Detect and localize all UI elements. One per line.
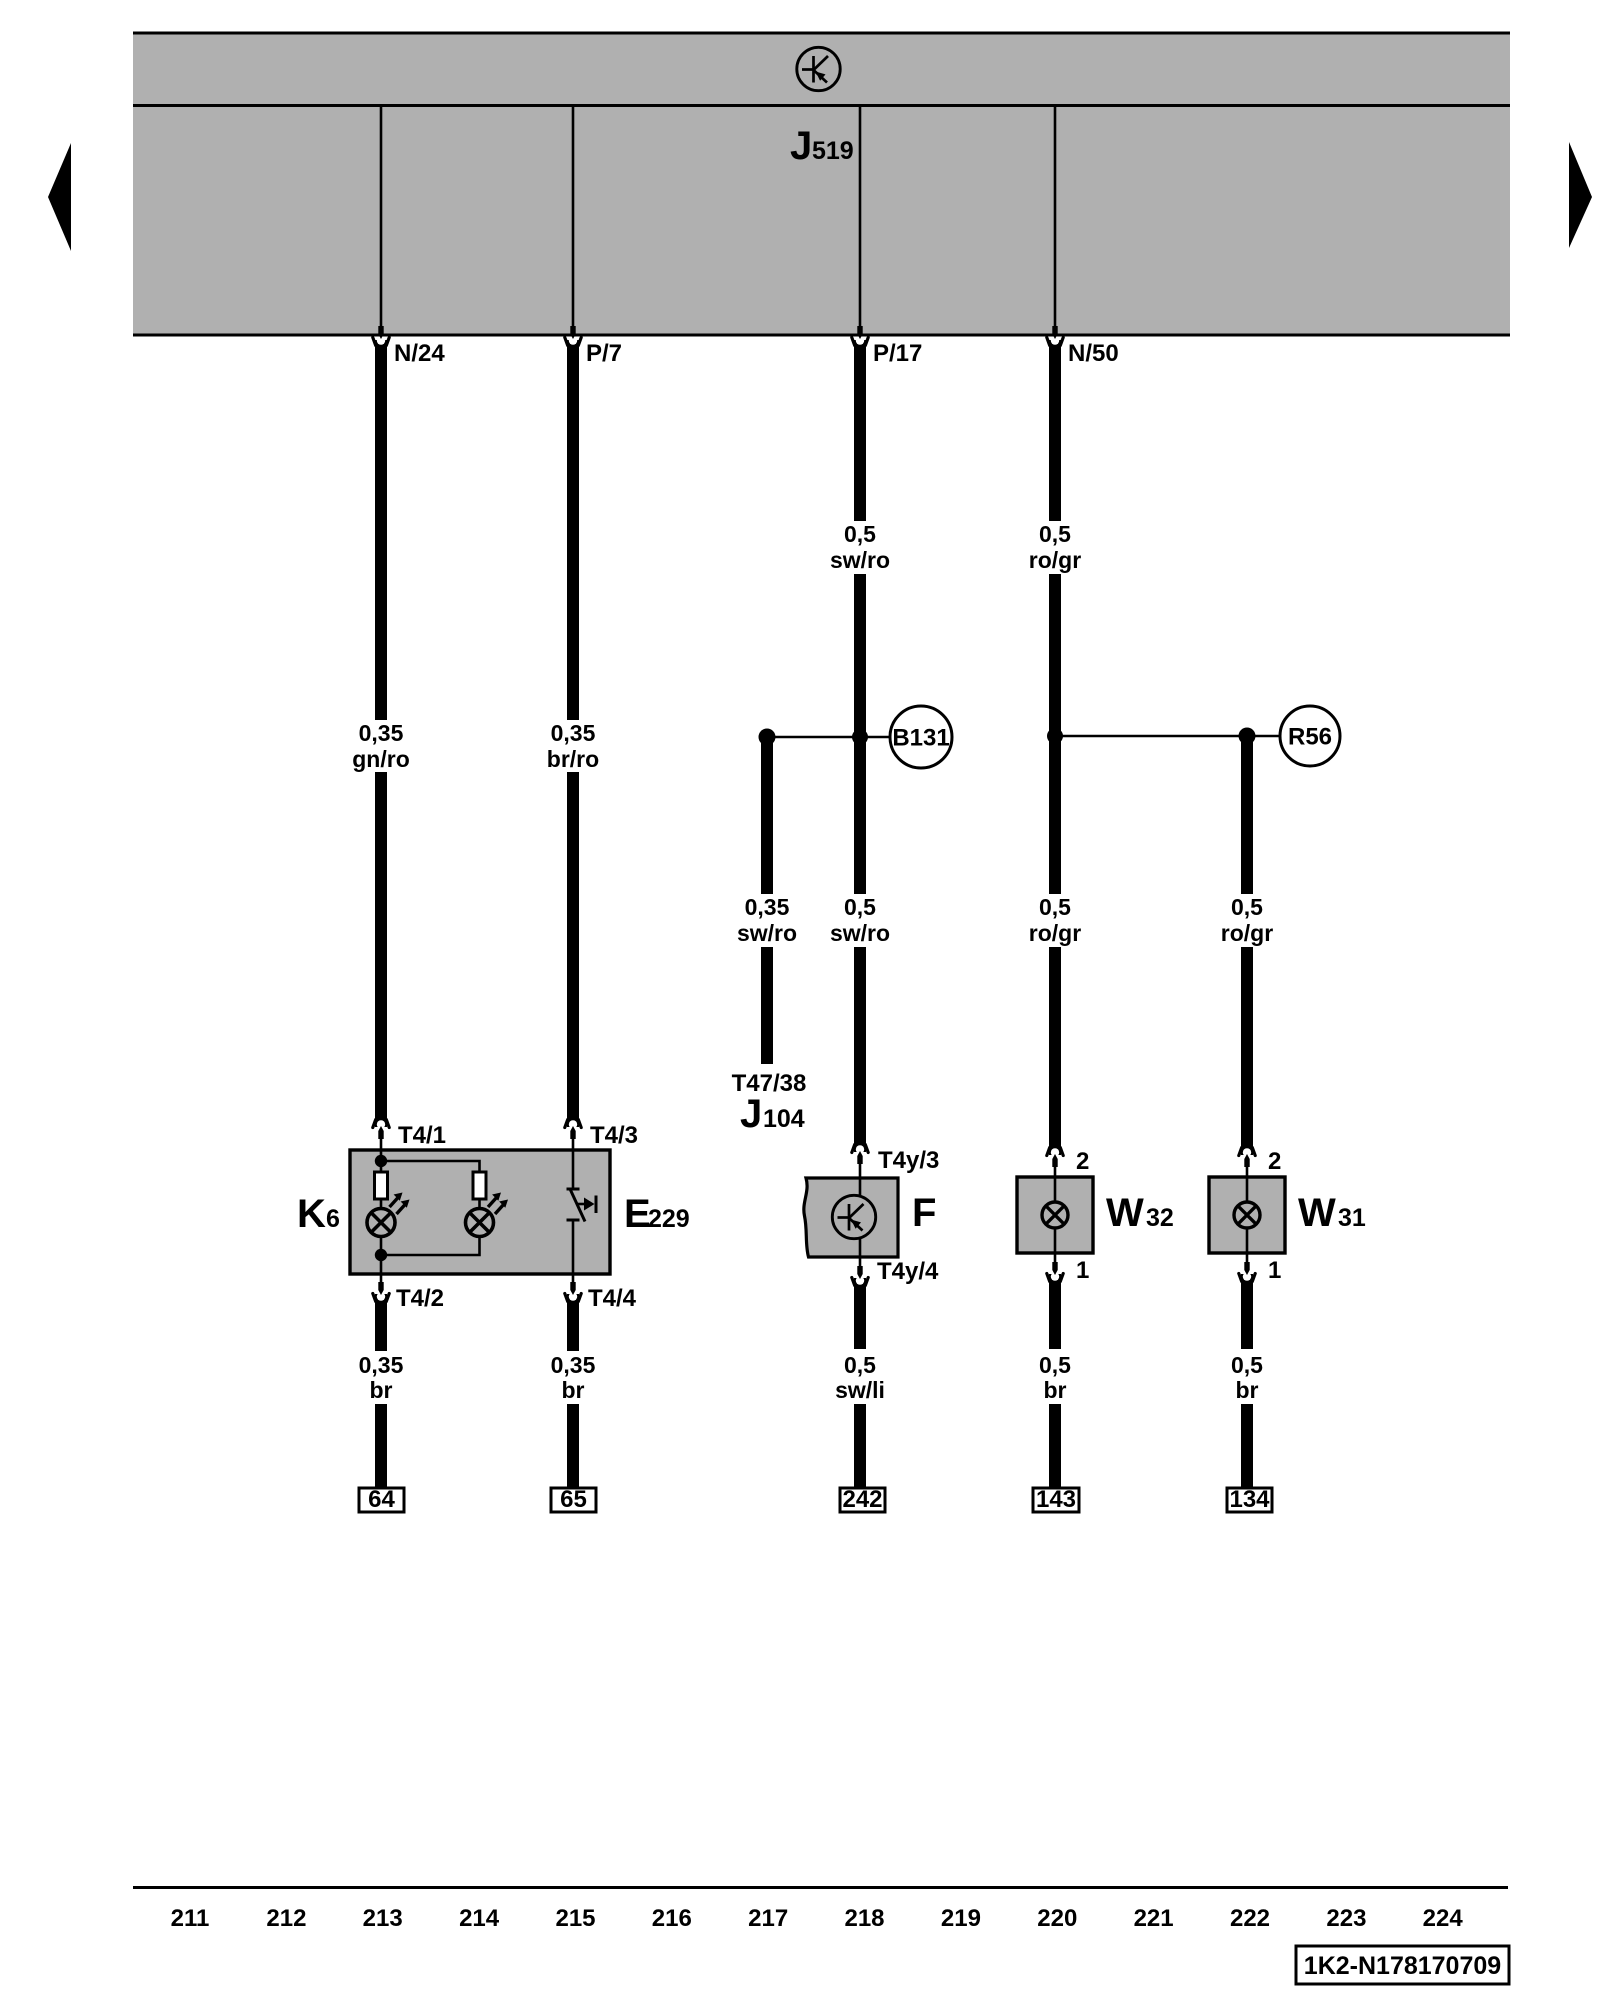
svg-text:217: 217 <box>748 1905 788 1932</box>
svg-text:br: br <box>562 1377 585 1403</box>
svg-text:64: 64 <box>368 1486 395 1513</box>
lamp symbol W31 <box>1234 1202 1260 1228</box>
wire W32 to ground 143, lower segment <box>1049 1404 1061 1489</box>
svg-text:143: 143 <box>1036 1486 1076 1513</box>
svg-text:229: 229 <box>648 1205 690 1233</box>
svg-text:220: 220 <box>1037 1905 1077 1932</box>
svg-text:134: 134 <box>1229 1486 1270 1513</box>
connector W32 pin 2 <box>1047 1148 1090 1180</box>
internal wire of J519 to pin P/17 <box>857 107 862 339</box>
label W32 <box>1106 1191 1174 1235</box>
svg-text:sw/ro: sw/ro <box>830 920 890 946</box>
svg-text:242: 242 <box>842 1486 882 1513</box>
svg-text:T4/4: T4/4 <box>588 1285 637 1312</box>
svg-text:0,5: 0,5 <box>1231 894 1263 920</box>
svg-text:0,35: 0,35 <box>745 894 790 920</box>
svg-text:0,5: 0,5 <box>1231 1352 1263 1378</box>
connector W31 pin 2 <box>1239 1148 1282 1180</box>
control unit J519 gray band <box>133 32 1510 337</box>
svg-text:B131: B131 <box>892 725 949 752</box>
wire P/7 to E229, upper segment <box>567 340 579 720</box>
branch link line to B131 <box>767 736 890 739</box>
internal wire of J519 to pin P/7 <box>570 107 575 339</box>
connector T4/2 <box>373 1274 444 1312</box>
svg-text:223: 223 <box>1326 1905 1366 1932</box>
pin P/7 socket <box>565 336 622 367</box>
svg-text:sw/li: sw/li <box>835 1377 885 1403</box>
svg-text:2: 2 <box>1268 1148 1281 1175</box>
indicator lamp right (K6) <box>466 1193 509 1237</box>
svg-text:222: 222 <box>1230 1905 1270 1932</box>
wire P/17 segment 2 <box>854 574 866 894</box>
label J104 <box>740 1092 805 1136</box>
svg-text:J: J <box>740 1092 762 1136</box>
junction node R56 dot on wire N/50 <box>1047 728 1063 744</box>
label E229 <box>624 1192 690 1236</box>
branch wire J104 upper segment <box>761 737 773 894</box>
svg-text:32: 32 <box>1146 1204 1174 1232</box>
svg-text:sw/ro: sw/ro <box>830 547 890 573</box>
svg-text:0,5: 0,5 <box>844 894 876 920</box>
wire label 0,5 ro/gr (upper) <box>1029 521 1081 573</box>
svg-text:1: 1 <box>1268 1257 1281 1284</box>
svg-text:br: br <box>370 1377 393 1403</box>
wire P/17 segment 1 <box>854 340 866 521</box>
wire P/7 to E229, lower segment <box>567 772 579 1127</box>
wire label 0,5 br (left) <box>1039 1352 1071 1403</box>
svg-text:F: F <box>912 1191 936 1235</box>
connector T4/3 <box>565 1120 638 1153</box>
branch wire W31 segment 2 <box>1241 947 1253 1155</box>
svg-text:1K2-N178170709: 1K2-N178170709 <box>1304 1952 1501 1980</box>
ground terminal 65 <box>551 1486 596 1513</box>
ground terminal 134 <box>1227 1486 1272 1513</box>
svg-text:216: 216 <box>652 1905 692 1932</box>
diagnosis interface symbol (circled K) in J519 <box>797 47 840 90</box>
K6 internal bottom junction dot <box>375 1249 387 1261</box>
svg-text:W: W <box>1106 1191 1144 1235</box>
K6 internal wiring <box>381 1150 480 1274</box>
wire label 0,35 br (right) <box>551 1352 596 1403</box>
wire P/17 segment 3 <box>854 947 866 1152</box>
ground terminal 242 <box>840 1486 885 1513</box>
svg-text:0,5: 0,5 <box>1039 521 1071 547</box>
connector W32 pin 1 <box>1047 1253 1090 1284</box>
svg-text:ro/gr: ro/gr <box>1221 920 1273 946</box>
svg-text:br/ro: br/ro <box>547 746 599 772</box>
wire W31 to ground 134, upper segment <box>1241 1274 1253 1349</box>
wire label 0,5 br (right) <box>1231 1352 1263 1403</box>
wire N/50 segment 1 <box>1049 340 1061 521</box>
svg-text:K: K <box>297 1192 326 1236</box>
svg-text:0,5: 0,5 <box>844 521 876 547</box>
internal wire of J519 to pin N/24 <box>378 107 383 339</box>
node circle R56 <box>1280 706 1340 766</box>
wire E229 to ground 65, lower segment <box>567 1404 579 1489</box>
svg-text:0,5: 0,5 <box>844 1352 876 1378</box>
svg-text:65: 65 <box>560 1486 587 1513</box>
node circle B131 <box>890 706 952 768</box>
svg-text:T4y/3: T4y/3 <box>878 1147 939 1174</box>
svg-text:104: 104 <box>763 1105 805 1133</box>
connector T4/4 <box>565 1274 637 1312</box>
wire E229 to ground 65, upper segment <box>567 1294 579 1351</box>
ground terminal 143 <box>1033 1486 1079 1513</box>
wire N/50 segment 2 <box>1049 574 1061 894</box>
svg-text:221: 221 <box>1134 1905 1174 1932</box>
svg-text:215: 215 <box>555 1905 595 1932</box>
branch wire to J104: end dot <box>759 729 776 746</box>
svg-text:sw/ro: sw/ro <box>737 920 797 946</box>
svg-text:6: 6 <box>326 1205 340 1233</box>
svg-text:0,35: 0,35 <box>551 1352 596 1378</box>
wire label 0,5 ro/gr (mid right) <box>1221 894 1273 946</box>
svg-text:212: 212 <box>266 1905 306 1932</box>
diagnosis symbol (circled K) in F <box>832 1195 875 1238</box>
svg-text:N/50: N/50 <box>1068 340 1119 367</box>
svg-text:519: 519 <box>812 137 854 165</box>
F internal connection lines <box>859 1178 862 1257</box>
svg-text:214: 214 <box>459 1905 500 1932</box>
resistor (right lamp series) <box>473 1172 486 1199</box>
wire label 0,35 sw/ro (branch) <box>737 894 797 946</box>
svg-text:P/7: P/7 <box>586 340 622 367</box>
wire W32 to ground 143, upper segment <box>1049 1274 1061 1349</box>
svg-text:0,35: 0,35 <box>359 720 404 746</box>
svg-text:ro/gr: ro/gr <box>1029 547 1081 573</box>
W32 internal connection lines <box>1054 1177 1057 1253</box>
current track numbers <box>171 1905 1464 1932</box>
svg-text:T4y/4: T4y/4 <box>877 1258 939 1285</box>
current track scale line <box>133 1886 1508 1889</box>
wire label 0,5 sw/ro (mid) <box>830 894 890 946</box>
wire N/24 to K6, upper segment <box>375 340 387 720</box>
connector T4/1 <box>373 1120 446 1153</box>
label J519 <box>790 124 854 168</box>
left page arrow <box>48 143 71 251</box>
wire label 0,5 sw/li <box>835 1352 885 1403</box>
svg-text:br: br <box>1044 1377 1067 1403</box>
svg-text:gn/ro: gn/ro <box>352 746 410 772</box>
wire label 0,5 sw/ro (upper) <box>830 521 890 573</box>
wire label 0,35 gn/ro <box>352 720 410 772</box>
wire F to ground 242, upper segment <box>854 1278 866 1349</box>
diagram id box 1K2-N178170709 <box>1296 1946 1509 1984</box>
wire label 0,5 ro/gr (mid left) <box>1029 894 1081 946</box>
pin N/24 socket <box>373 336 446 367</box>
svg-text:224: 224 <box>1423 1905 1464 1932</box>
wire F to ground 242, lower segment <box>854 1404 866 1489</box>
connector T4y/3 <box>852 1145 940 1181</box>
svg-text:1: 1 <box>1076 1257 1089 1284</box>
resistor (left lamp series) <box>375 1172 388 1199</box>
label W31 <box>1298 1191 1366 1235</box>
wire N/24 to K6, lower segment <box>375 772 387 1127</box>
svg-text:31: 31 <box>1338 1204 1366 1232</box>
svg-text:213: 213 <box>363 1905 403 1932</box>
wire label 0,35 br/ro <box>547 720 599 772</box>
svg-text:ro/gr: ro/gr <box>1029 920 1081 946</box>
wire K6 to ground 64, lower segment <box>375 1404 387 1489</box>
svg-text:T4/2: T4/2 <box>396 1285 444 1312</box>
label K6 <box>297 1192 340 1236</box>
indicator lamp left (K6) <box>367 1193 410 1237</box>
svg-text:P/17: P/17 <box>873 340 922 367</box>
wire K6 to ground 64, upper segment <box>375 1294 387 1351</box>
svg-text:R56: R56 <box>1288 724 1332 751</box>
junction node B131 dot on wire P/17 <box>852 729 868 745</box>
svg-text:0,5: 0,5 <box>1039 894 1071 920</box>
svg-text:br: br <box>1236 1377 1259 1403</box>
svg-text:T4/1: T4/1 <box>398 1122 446 1149</box>
lamp W32 box <box>1017 1177 1093 1253</box>
internal wire of J519 to pin N/50 <box>1052 107 1057 339</box>
right page arrow <box>1569 142 1592 248</box>
branch wire J104 lower segment <box>761 947 773 1064</box>
svg-text:219: 219 <box>941 1905 981 1932</box>
branch wire to W31: end dot <box>1239 728 1256 745</box>
svg-text:N/24: N/24 <box>394 340 445 367</box>
wire W31 to ground 134, lower segment <box>1241 1404 1253 1489</box>
ground terminal 64 <box>359 1486 404 1513</box>
branch link line to R56 <box>1055 735 1280 738</box>
K6 internal top junction dot <box>375 1155 387 1167</box>
branch wire W31 segment 1 <box>1241 736 1253 894</box>
connector W31 pin 1 <box>1239 1253 1282 1284</box>
svg-text:2: 2 <box>1076 1148 1089 1175</box>
svg-text:0,35: 0,35 <box>359 1352 404 1378</box>
svg-text:E: E <box>624 1192 651 1236</box>
lamp W31 box <box>1209 1177 1285 1253</box>
connector T4y/4 <box>852 1257 939 1286</box>
W31 internal connection lines <box>1246 1177 1249 1253</box>
svg-text:211: 211 <box>171 1905 210 1932</box>
fuse/interface unit F box (torn edge) <box>804 1178 898 1257</box>
relay K6 / switch E229 box <box>350 1150 610 1274</box>
svg-text:J: J <box>790 124 812 168</box>
svg-text:0,35: 0,35 <box>551 720 596 746</box>
lamp symbol W32 <box>1042 1202 1068 1228</box>
svg-text:218: 218 <box>844 1905 884 1932</box>
pin N/50 socket <box>1047 336 1119 367</box>
svg-text:0,5: 0,5 <box>1039 1352 1071 1378</box>
svg-text:W: W <box>1298 1191 1336 1235</box>
wire label 0,35 br (left) <box>359 1352 404 1403</box>
switch E229 symbol <box>567 1150 597 1274</box>
wire N/50 segment 3 <box>1049 947 1061 1155</box>
pin P/17 socket <box>852 336 923 367</box>
svg-text:T4/3: T4/3 <box>590 1122 638 1149</box>
